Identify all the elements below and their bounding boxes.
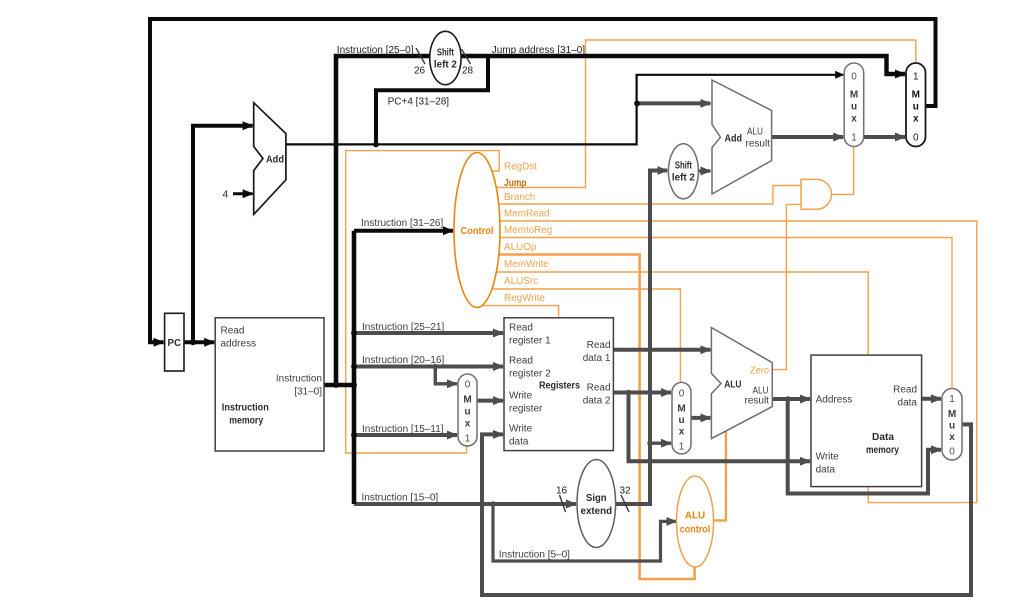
wire PC+4 thin line from Add output to branch mux input 0 [285,75,843,145]
wire ALU-control output to ALU select input [710,430,726,520]
svg-text:Instruction [5–0]: Instruction [5–0] [499,550,570,561]
svg-text:0: 0 [913,133,919,144]
svg-text:Instruction: Instruction [222,403,269,414]
junction instruction bus at memory output [351,382,357,388]
wire ALUSrc: control to ALU input mux select [485,289,680,382]
svg-text:MemRead: MemRead [504,209,550,220]
wire jump mux output around top to PC input [150,19,936,342]
svg-text:0: 0 [465,380,471,391]
svg-text:Add: Add [725,134,743,145]
svg-text:1: 1 [465,434,471,445]
svg-text:Instruction [15–0]: Instruction [15–0] [362,493,439,504]
svg-text:register 2: register 2 [509,369,551,380]
svg-text:1: 1 [851,133,857,144]
svg-text:x: x [913,114,919,125]
wire Read-register-2: instruction bus to registers [354,365,503,369]
wire jump address from shift-left-2 to jump mux input 1 [461,56,906,74]
svg-text:data: data [509,437,529,448]
junction bus at instruction 15-11 [351,432,357,438]
svg-text:M: M [850,90,858,101]
svg-text:Address: Address [816,395,853,406]
junction read data 2 to write data branch [626,390,631,395]
svg-text:ALU: ALU [724,380,741,391]
svg-text:memory: memory [229,416,263,427]
wire Read-data-2 to ALUSrc mux input 0 [613,391,671,395]
data memory box [811,355,922,487]
wire shift-left-2 output to branch adder input [696,169,710,172]
svg-text:x: x [465,419,471,430]
svg-text:Shift: Shift [437,48,455,59]
junction bus at read register 2 [351,364,357,370]
wire sign extend output up to shift-left-2 [612,171,667,505]
junction PC output [190,339,196,345]
svg-text:32: 32 [620,486,632,497]
wire PC output up to Add input [193,126,253,343]
svg-text:28: 28 [462,66,474,77]
svg-text:0: 0 [679,389,685,400]
svg-text:0: 0 [949,447,955,458]
junction sign extend line to mux 1 branch [647,441,652,446]
svg-text:0: 0 [851,72,857,83]
svg-text:u: u [464,407,470,418]
svg-text:Read: Read [587,340,611,351]
wire Read-data-2 branch down to data memory write data [629,393,811,462]
svg-text:result: result [745,396,770,407]
junction read register 2 to mux branch [433,364,438,369]
mux memtoreg (final) [942,389,962,461]
mux ALU input (ALUSrc) [672,382,691,454]
svg-text:data: data [898,398,918,409]
control unit ellipse [454,153,500,308]
svg-text:register 1: register 1 [509,336,551,347]
svg-text:Add: Add [266,155,284,166]
adder Add ALU result (branch target) [712,80,772,194]
adder Add (PC+4) [254,103,286,215]
svg-text:Write: Write [509,391,533,402]
svg-text:data: data [816,465,836,476]
svg-text:4: 4 [223,190,229,201]
svg-text:1: 1 [679,442,685,453]
svg-text:RegWrite: RegWrite [504,293,545,304]
wire Branch: control to AND gate top input [485,186,801,205]
svg-text:MemtoReg: MemtoReg [504,225,552,236]
wire Instruction[15-11] to regdst mux input 1 [354,433,457,437]
wire MemRead: control to data memory bottom [487,221,977,503]
svg-text:left 2: left 2 [672,173,695,184]
AND gate [801,179,832,209]
wire ALUOp: control to ALU control (thick bus) [487,255,695,580]
wire Zero: ALU zero output to AND gate bottom input [770,204,801,369]
svg-text:Read: Read [509,323,533,334]
svg-text:control: control [680,525,711,536]
junction ALU result to final mux branch [785,396,790,401]
svg-text:M: M [912,90,920,101]
svg-text:Instruction: Instruction [276,374,322,385]
wire MemtoReg: control to final mux select [487,238,952,389]
svg-text:Instruction [25–0]: Instruction [25–0] [337,45,414,56]
ALU main [711,328,772,439]
svg-text:u: u [913,102,919,113]
svg-text:M: M [677,404,685,415]
svg-text:data 1: data 1 [583,353,611,364]
svg-text:u: u [678,415,684,426]
wire ALU result to data memory address [770,397,810,401]
wire PC+4 to branch adder top input [637,101,711,105]
sign extend ellipse [577,460,616,548]
wire RegWrite: control to registers top [482,306,559,318]
svg-text:Read: Read [509,356,533,367]
svg-text:result: result [746,139,771,150]
svg-text:x: x [851,114,857,125]
svg-text:Jump: Jump [504,178,527,189]
wire Read-data-1 to ALU input [613,348,710,352]
svg-text:ALUOp: ALUOp [504,242,537,253]
svg-text:Jump address [31–0]: Jump address [31–0] [492,45,586,56]
wire Instruction[25-0] up to shift-left-2 [336,56,431,385]
svg-text:Registers: Registers [539,381,580,392]
wire AND-gate output to branch mux select [828,147,854,194]
registers box [504,318,613,451]
wire branch mux output to jump mux input 0 [863,135,905,139]
svg-text:x: x [679,427,685,438]
junction instruction 15-0 to 5-0 branch [490,501,495,506]
svg-text:Read: Read [893,385,917,396]
svg-text:Write: Write [509,424,533,435]
svg-text:left 2: left 2 [434,60,457,71]
register PC [165,313,184,371]
junction PC+4 at 31-28 branch [373,142,379,148]
svg-text:x: x [949,432,955,443]
svg-text:Control: Control [461,226,494,237]
wire final mux output loop to registers write data [482,424,971,595]
svg-text:RegDst: RegDst [504,162,537,173]
svg-text:address: address [221,339,257,350]
svg-text:Shift: Shift [675,161,693,172]
svg-text:ALUSrc: ALUSrc [504,276,538,287]
wire memory Read-data to final mux input 1 [922,397,941,401]
svg-text:u: u [851,102,857,113]
mux write-register (RegDst) [458,374,477,446]
shift left 2 ellipse (branch) [668,144,698,199]
junction bus at read register 1 [351,330,357,336]
svg-text:Zero: Zero [750,366,769,377]
svg-text:extend: extend [581,506,613,517]
svg-text:PC: PC [168,338,182,349]
wire RegDst: control to write-register mux select [346,151,500,453]
svg-text:Instruction [31–26]: Instruction [31–26] [361,218,443,229]
svg-text:register: register [509,404,543,415]
wire MemWrite: control to data memory top [487,272,868,355]
svg-text:Instruction [15–11]: Instruction [15–11] [362,424,444,435]
svg-text:16: 16 [556,486,568,497]
wire instruction[20-16] branch to regdst mux input 0 [435,367,457,384]
wire ALUSrc mux output to ALU input [689,416,710,420]
DOTS [190,101,640,438]
wire PC output to instruction memory read address [184,340,214,344]
wire constant 4 into Add [233,192,253,195]
svg-text:data 2: data 2 [583,396,611,407]
instruction memory box [215,318,324,451]
svg-text:1: 1 [949,394,955,405]
svg-text:u: u [949,421,955,432]
svg-text:MemWrite: MemWrite [504,259,549,270]
wire instruction bus vertical [352,231,357,504]
tick bus width 26 [416,48,425,64]
wire branch adder result to branch mux input 1 [771,135,844,139]
svg-text:M: M [463,395,471,406]
svg-text:M: M [948,409,956,420]
svg-text:Read: Read [221,326,245,337]
junction PC+4 at branch adder feed [634,101,640,107]
wire Read-register-1: instruction bus to registers [354,331,503,335]
svg-text:Write: Write [816,452,840,463]
wire Instruction[15-0] to sign extend [354,502,576,506]
svg-text:ALU: ALU [685,511,706,522]
svg-text:1: 1 [913,72,919,83]
shift left 2 ellipse (jump) [430,31,461,84]
mux jump [906,63,926,147]
ALU control ellipse [677,476,714,567]
wire sign extend branch to ALUSrc mux input 1 [650,442,671,445]
mux branch (PCSrc) [844,63,864,147]
svg-text:ALU: ALU [747,127,763,138]
svg-text:[31–0]: [31–0] [294,387,322,398]
wire Jump: control to jump mux select [485,40,916,188]
tick bus width 28 [462,49,471,64]
svg-text:Read: Read [587,383,611,394]
svg-text:Branch: Branch [504,192,535,203]
svg-text:memory: memory [866,445,899,456]
junction instruction 25-0 split [333,382,339,388]
svg-text:PC+4 [31–28]: PC+4 [31–28] [388,97,450,108]
svg-text:Instruction [20–16]: Instruction [20–16] [362,355,444,366]
wire PC+4[31-28] up to jump address [376,56,488,144]
wire regdst mux output to write register [475,399,503,403]
tick bus width 32 [621,495,629,512]
wire Instruction[31-26] into control unit [354,229,453,233]
wire ALU result loop to final mux input 0 [788,399,941,494]
wire instruction memory output to bus [324,383,354,388]
svg-text:Sign: Sign [586,493,607,504]
wire Instruction[5-0] to ALU control [493,504,676,561]
svg-text:26: 26 [414,66,426,77]
tick bus width 16 [560,495,566,512]
svg-text:Instruction [25–21]: Instruction [25–21] [362,322,444,333]
svg-text:Data: Data [872,432,894,443]
